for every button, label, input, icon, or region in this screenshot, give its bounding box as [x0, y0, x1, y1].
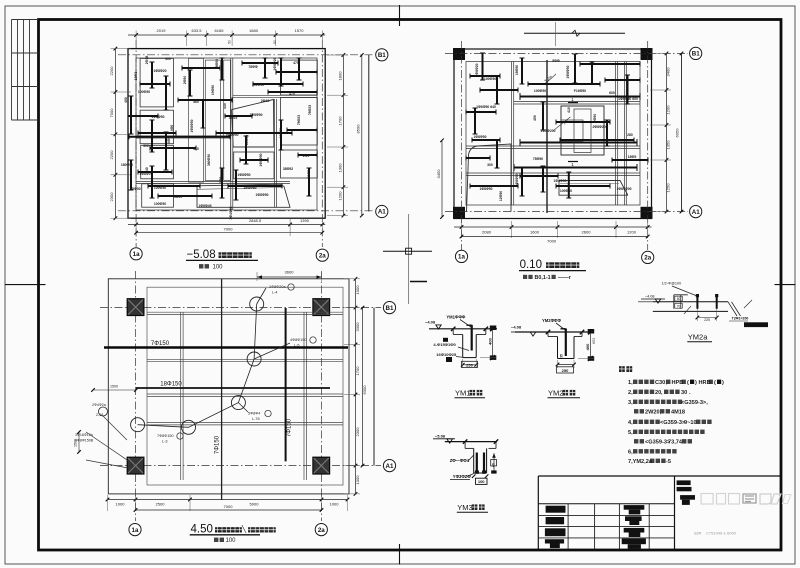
- svg-text:225: 225: [704, 318, 710, 322]
- svg-text:460: 460: [124, 97, 128, 103]
- svg-text:A1: A1: [378, 209, 386, 216]
- svg-text:100Φ50: 100Φ50: [560, 189, 572, 193]
- svg-text:1000: 1000: [116, 502, 126, 507]
- svg-text:2Φ50: 2Φ50: [183, 76, 187, 85]
- svg-text:T2Φ1=200: T2Φ1=200: [732, 317, 749, 321]
- detail YM2 beam web outline: [557, 337, 559, 359]
- svg-text:280: 280: [627, 133, 633, 137]
- svg-text:70: 70: [677, 304, 681, 308]
- plan1 stair void polygon middle: [232, 100, 274, 148]
- title block outline: [538, 475, 780, 477]
- svg-text:2Φ48: 2Φ48: [261, 99, 270, 103]
- svg-text:4.50: 4.50: [191, 524, 213, 536]
- svg-text:3Φ5: 3Φ5: [219, 177, 223, 184]
- plan3 diagonal leaders bottom-left: [86, 432, 130, 462]
- svg-text:3600: 3600: [285, 270, 295, 275]
- detail YM2a bottom dimension 225: [697, 317, 716, 319]
- plan1 inner wall line: [136, 58, 317, 210]
- plan2 axis bubble 2a: [642, 251, 654, 263]
- svg-text:50: 50: [228, 40, 232, 44]
- svg-text:1500: 1500: [74, 439, 78, 447]
- svg-text:2a: 2a: [318, 527, 325, 534]
- plan2 interior beam horizontal pair upper: [514, 101, 640, 103]
- plan1 mid lower room: [234, 152, 274, 179]
- title block redacted cell r3c4: [624, 528, 645, 533]
- plan2 corner column top-left: [453, 48, 465, 60]
- svg-text:1Φ8Φ50: 1Φ8Φ50: [249, 113, 262, 117]
- plan2 subtitle: [523, 275, 533, 279]
- svg-text:445: 445: [193, 147, 199, 151]
- plan2 axis line 2a: [647, 41, 649, 250]
- svg-text:╲: ╲: [241, 525, 247, 534]
- plan1 bottom dimension line: [128, 224, 325, 226]
- svg-text:4Φ20: 4Φ20: [174, 195, 183, 199]
- svg-text:5,: 5,: [628, 430, 633, 436]
- plan1 interior beam horizontal upper right: [233, 94, 317, 96]
- svg-text:YM1: YM1: [455, 389, 470, 398]
- plan1 left dimension line: [114, 49, 116, 219]
- svg-text:1250: 1250: [666, 183, 671, 193]
- plan3 column 1aB1: [127, 299, 144, 316]
- detail YM2a left step bracket: [674, 295, 688, 309]
- plan2 inner wall line: [466, 62, 640, 206]
- svg-text:1000: 1000: [355, 285, 360, 295]
- detail YM2 right dimension: [589, 332, 591, 359]
- svg-text:1500: 1500: [110, 385, 118, 389]
- sheet center cross: [408, 214, 410, 304]
- plan3 1500 dim vertical: [78, 432, 80, 452]
- svg-text:(: (: [687, 380, 689, 386]
- plan1 outer wall outline: [128, 49, 325, 219]
- plan1 stair flight strip 1: [189, 58, 204, 182]
- plan3 small circle left: [99, 407, 108, 416]
- svg-text:100Φ50: 100Φ50: [534, 89, 546, 93]
- detail YM1 left annotation blob: [443, 338, 448, 342]
- plan3 axis bubble 1a: [129, 524, 141, 536]
- detail YM2a mid slash marks: [684, 306, 691, 314]
- svg-text:1Φ8Φ50: 1Φ8Φ50: [259, 153, 263, 166]
- plan1 stair flight strip 2: [205, 60, 220, 180]
- svg-text:2Φ4Φ2a: 2Φ4Φ2a: [92, 403, 106, 407]
- plan3 slab panel lines: [147, 311, 343, 313]
- plan2 corner column top-right: [641, 48, 653, 60]
- title block redacted cell r2c1: [546, 517, 565, 524]
- svg-text:YM2: YM2: [548, 389, 563, 398]
- svg-text:1Φ8Φ20: 1Φ8Φ20: [273, 57, 277, 70]
- svg-text:4-Φ15Φ1Φ0: 4-Φ15Φ1Φ0: [433, 342, 456, 347]
- svg-text:4Φ2: 4Φ2: [592, 338, 596, 345]
- plan3 axis line 2a: [321, 271, 323, 521]
- svg-text:1a: 1a: [458, 254, 465, 261]
- svg-text:1800: 1800: [338, 71, 343, 81]
- plan2 long top beam bar: [520, 96, 640, 98]
- svg-text:7000: 7000: [109, 108, 114, 118]
- plan1 room left col 1: [140, 58, 173, 107]
- svg-text:7,YM2,2a: 7,YM2,2a: [628, 459, 653, 465]
- svg-text:1Φ8Φ50: 1Φ8Φ50: [255, 193, 268, 197]
- svg-text:8590: 8590: [356, 124, 361, 134]
- plan1 room right col 1: [281, 60, 318, 95]
- plan1 bottom slab band polygon: [197, 184, 290, 207]
- title block redacted cell r2c4: [625, 516, 642, 521]
- svg-text:1Φ8Φ50: 1Φ8Φ50: [225, 133, 238, 137]
- title block logo bar 1: [677, 480, 691, 485]
- svg-text:3450: 3450: [436, 169, 441, 179]
- svg-text:3,: 3,: [628, 400, 633, 406]
- svg-text:78Φ23: 78Φ23: [297, 115, 301, 125]
- svg-text:1Φ8Φ20: 1Φ8Φ20: [153, 69, 166, 73]
- plan3 center section line vertical: [221, 279, 223, 500]
- svg-text:1Φ8Φ50: 1Φ8Φ50: [473, 135, 486, 139]
- plan2 elevator shaft rectangle: [561, 106, 604, 155]
- svg-text:78Φ23: 78Φ23: [308, 105, 312, 115]
- svg-text:−5.08: −5.08: [435, 433, 446, 438]
- plan3 axis bubble 2a: [315, 524, 327, 536]
- plan1 stair flight strip 3: [224, 60, 231, 180]
- plan3 callout circle 3: [231, 396, 245, 410]
- svg-text:1570: 1570: [295, 28, 305, 33]
- svg-text:−5.08: −5.08: [187, 249, 216, 261]
- svg-text:4Φ8Φ150B: 4Φ8Φ150B: [75, 439, 94, 443]
- svg-text:40: 40: [491, 463, 495, 467]
- svg-text:B0,1-1: B0,1-1: [535, 275, 551, 281]
- svg-text:2a: 2a: [644, 255, 651, 262]
- svg-text:445: 445: [223, 103, 227, 109]
- plan3 right overall dimension: [362, 308, 364, 466]
- detail YM3 right dimension with arrow: [493, 453, 495, 472]
- axis line 1a vertical: [135, 40, 137, 247]
- svg-text:YM1ΦΦΦ: YM1ΦΦΦ: [446, 314, 465, 319]
- svg-text:380Φ50: 380Φ50: [207, 154, 211, 166]
- svg-text:7Φ150: 7Φ150: [151, 341, 170, 347]
- plan2 left ramp polygon: [467, 144, 512, 212]
- svg-text:50: 50: [677, 297, 681, 301]
- svg-text:78ΦΦ: 78ΦΦ: [248, 65, 258, 69]
- svg-text:2Φ8Φ200: 2Φ8Φ200: [593, 125, 608, 129]
- svg-text:A1: A1: [386, 463, 394, 470]
- plan3 mid rebar line 18@150: [136, 387, 330, 389]
- svg-text:410: 410: [567, 107, 571, 113]
- svg-text:400: 400: [585, 343, 590, 350]
- centering mark bottom: [399, 544, 401, 565]
- plan1 interior beam vertical pair right of void: [274, 99, 276, 207]
- plan1 room right col 2: [281, 98, 318, 146]
- detail YM1 top slab line: [429, 328, 497, 330]
- svg-text:1Φ8Φ50: 1Φ8Φ50: [515, 173, 519, 186]
- svg-text:1Φ8Φ50: 1Φ8Φ50: [151, 115, 164, 119]
- svg-text:2-18: 2-18: [96, 413, 103, 417]
- svg-text:1,: 1,: [628, 380, 633, 386]
- svg-text:16Φ10Φ25: 16Φ10Φ25: [436, 352, 457, 357]
- plan3 bottom dimension line: [108, 499, 348, 501]
- plan3 callout leader polyline: [138, 304, 257, 427]
- plan3 axis line A1: [100, 465, 381, 467]
- svg-text:7Φ150: 7Φ150: [215, 435, 221, 454]
- plan2 shaft diagonal mark: [554, 117, 571, 130]
- svg-text:1000: 1000: [330, 502, 340, 507]
- centering mark left: [5, 284, 46, 286]
- title block header bottom line: [538, 503, 674, 505]
- axis bubble B1: [376, 49, 388, 61]
- svg-text:7ΦΦ50: 7ΦΦ50: [129, 187, 140, 191]
- plan3 top dimension 3600: [257, 276, 322, 278]
- svg-text:1a: 1a: [132, 527, 139, 534]
- plan3 inner slab line: [147, 287, 343, 485]
- detail YM2 rebar bar: [565, 329, 567, 357]
- svg-text:5000: 5000: [250, 502, 260, 507]
- axis bubble 2a: [316, 249, 328, 261]
- title block redacted cell r4c1: [545, 539, 564, 543]
- svg-text:1000: 1000: [355, 475, 360, 485]
- svg-text:2Φ5: 2Φ5: [303, 154, 310, 158]
- svg-text:<G359-3>,: <G359-3>,: [681, 400, 708, 406]
- signature strip grid top-left: [11, 20, 13, 121]
- plan2 interior beam vertical pair left: [511, 62, 513, 206]
- svg-text:30Φ5: 30Φ5: [307, 170, 311, 179]
- svg-text:300: 300: [487, 163, 493, 167]
- svg-text:L-4: L-4: [272, 291, 278, 295]
- svg-text:7000: 7000: [224, 227, 234, 232]
- svg-text:7Φ8Φ150: 7Φ8Φ150: [157, 434, 174, 438]
- plan2 axis bubble B1: [690, 47, 702, 59]
- centering mark top: [399, 5, 401, 26]
- svg-text:1200: 1200: [666, 105, 671, 115]
- detail YM2a dowel bar 2: [716, 296, 718, 309]
- svg-text:L-5: L-5: [294, 344, 300, 348]
- svg-text:YM2ΦΦΦ: YM2ΦΦΦ: [542, 318, 561, 323]
- svg-text:2019: 2019: [157, 28, 167, 33]
- plan1 room left col 2: [140, 110, 173, 144]
- svg-text:2,: 2,: [628, 390, 633, 396]
- svg-text:1Φ8Φ0: 1Φ8Φ0: [139, 172, 150, 176]
- svg-text:2200: 2200: [109, 150, 114, 160]
- svg-text:2080: 2080: [482, 230, 492, 235]
- detail YM2 bottom dimension 250: [558, 364, 575, 366]
- plan2 interior beam horizontal pair middle full: [466, 145, 640, 147]
- svg-text:C751049-1-6000: C751049-1-6000: [706, 531, 737, 536]
- svg-text:18Φ50: 18Φ50: [279, 128, 283, 138]
- svg-text:6050: 6050: [675, 128, 680, 138]
- svg-text:1390: 1390: [300, 218, 310, 223]
- plan2 bottom dimension line: [454, 226, 652, 228]
- plan2 axis line A1: [445, 211, 688, 213]
- svg-text:1200: 1200: [338, 191, 343, 201]
- plan3 column 1aA1: [127, 457, 144, 474]
- plan1 room left col 4: [142, 184, 174, 207]
- svg-text:78Φ50: 78Φ50: [533, 157, 543, 161]
- centering mark right: [775, 284, 796, 286]
- axis line A1 horizontal: [118, 210, 375, 212]
- svg-text:2200: 2200: [109, 66, 114, 76]
- svg-text:6165: 6165: [215, 28, 225, 33]
- svg-text:2a: 2a: [319, 252, 326, 259]
- svg-text:4Φ8: 4Φ8: [167, 137, 171, 144]
- svg-text:L-76: L-76: [252, 417, 260, 421]
- plan2 interior beam vertical pair far right: [624, 62, 626, 206]
- svg-text:3400: 3400: [666, 67, 671, 77]
- plan2 left dimension: [441, 140, 443, 217]
- svg-text:B1: B1: [386, 305, 394, 312]
- plan2 interior beam horizontal pair lower full: [466, 172, 640, 174]
- plan1 interior beam horizontal lower: [136, 181, 290, 183]
- svg-text:<G359-3>: <G359-3>: [660, 420, 686, 426]
- svg-text:73,74: 73,74: [668, 440, 683, 446]
- title block redacted cell r3c1: [545, 528, 566, 536]
- detail YM1 beam web outline: [462, 335, 464, 358]
- detail YM3 slab soffit brackets: [464, 442, 466, 449]
- plan3 axis line 1a: [135, 271, 137, 521]
- svg-text:2Φ50: 2Φ50: [593, 114, 597, 123]
- plan2 outer wall outline: [454, 49, 652, 219]
- svg-text:1Φ8Φ45: 1Φ8Φ45: [198, 204, 211, 208]
- svg-text:YM2a: YM2a: [688, 333, 708, 342]
- svg-text:−4.08: −4.08: [425, 320, 436, 325]
- svg-text:100: 100: [478, 479, 485, 484]
- plan3 right dimension line: [355, 279, 357, 494]
- svg-text:4Φ0: 4Φ0: [170, 125, 174, 132]
- detail YM3 web outline: [473, 448, 475, 473]
- plan3 top rebar distribution line 7@150: [104, 346, 348, 349]
- svg-text:4,: 4,: [628, 420, 633, 426]
- svg-text:18Φ3: 18Φ3: [134, 72, 138, 81]
- svg-text:7Φ150: 7Φ150: [287, 418, 293, 437]
- plan3 callout circle 1: [250, 297, 264, 311]
- detail YM3 top line: [445, 441, 497, 443]
- plan3 bottom overall dimension: [136, 509, 322, 511]
- svg-text:560: 560: [193, 100, 199, 104]
- svg-text:400: 400: [487, 337, 492, 344]
- title block redacted cell r1c4: [624, 505, 645, 510]
- svg-text:3Φ4Φ50: 3Φ4Φ50: [229, 206, 233, 219]
- svg-text:30: 30: [681, 390, 687, 396]
- svg-text:0.10: 0.10: [520, 259, 542, 271]
- svg-text:5ΦΦ: 5ΦΦ: [552, 59, 560, 63]
- plan3 outer outline: [108, 279, 349, 494]
- svg-text:2W20,: 2W20,: [645, 410, 662, 416]
- svg-text:A1: A1: [692, 209, 700, 216]
- svg-text:1350: 1350: [666, 140, 671, 150]
- title block row lines: [538, 514, 674, 516]
- title block redacted cell r4c4: [622, 539, 646, 545]
- svg-text:4M18: 4M18: [671, 410, 685, 416]
- title block redacted cell r1c1: [546, 506, 566, 513]
- svg-text:1700: 1700: [355, 366, 360, 376]
- svg-text:19Φ50: 19Φ50: [211, 85, 215, 95]
- plan2 bottom-right slab band: [559, 181, 628, 196]
- detail YM1 rebar bar: [471, 325, 473, 351]
- detail YM1 right dimension 400: [492, 329, 494, 358]
- svg-text:100Φ50: 100Φ50: [154, 186, 166, 190]
- svg-text:100Φ50: 100Φ50: [154, 202, 166, 206]
- svg-text:7000: 7000: [547, 239, 557, 244]
- svg-text:1200: 1200: [627, 230, 637, 235]
- svg-text:1Φ8Φ50: 1Φ8Φ50: [479, 187, 492, 191]
- plan2 mid beam bar: [520, 142, 637, 144]
- plan3 callout circle 5: [131, 418, 145, 432]
- svg-text:2848.5: 2848.5: [249, 218, 262, 223]
- svg-text:YΦ3ΦZΦ: YΦ3ΦZΦ: [453, 474, 472, 479]
- svg-text:−4.08: −4.08: [511, 324, 522, 329]
- plan2 right inner dimension line: [666, 53, 668, 211]
- plan2 axis bubble 1a: [455, 250, 467, 262]
- svg-text:4Φ25: 4Φ25: [229, 116, 238, 120]
- plan1 rebar marks: [151, 62, 153, 88]
- plan3 callout circle 2: [247, 352, 261, 366]
- svg-text:475: 475: [293, 61, 299, 65]
- axis bubble 1a: [130, 248, 142, 260]
- plan3 axis bubble connector line: [373, 308, 375, 466]
- svg-text:100Φ50: 100Φ50: [138, 90, 150, 94]
- plan3 vertical rebar line right 7@150: [285, 308, 287, 461]
- detail YM2a right break: [728, 302, 737, 316]
- plan3 axis bubble A1: [383, 460, 395, 472]
- plan2 bottom overall dimension: [462, 236, 648, 238]
- plan3 axis line B1: [100, 307, 381, 309]
- plan1 axis bubble connector line: [368, 55, 370, 212]
- svg-text:1680: 1680: [249, 28, 259, 33]
- plan2 interior beam vertical pair right: [615, 62, 617, 206]
- svg-text:300: 300: [165, 57, 171, 61]
- svg-text:18Φ50: 18Φ50: [515, 65, 519, 75]
- svg-text:2600: 2600: [582, 230, 592, 235]
- plan3 callout circle 4: [182, 420, 196, 434]
- plan1 room right col 3: [281, 150, 318, 178]
- svg-text:1Φ8Φ50: 1Φ8Φ50: [243, 186, 256, 190]
- svg-text:475: 475: [289, 92, 295, 96]
- svg-text:6,: 6,: [628, 450, 633, 456]
- detail YM2 slab soffit brackets: [547, 332, 549, 337]
- detail YM3 inner bars: [476, 453, 478, 472]
- plan1 top dimension line: [128, 34, 325, 36]
- svg-text:1600: 1600: [530, 230, 540, 235]
- svg-text:——r: ——r: [558, 275, 572, 281]
- svg-text:50: 50: [273, 40, 277, 44]
- plan2 lower beam bar: [514, 167, 637, 169]
- axis line 2a vertical: [321, 40, 323, 247]
- detail YM2a dowel bar 1: [696, 296, 698, 309]
- svg-text:C30;: C30;: [655, 380, 667, 386]
- svg-text:L-3: L-3: [162, 440, 168, 444]
- svg-text:9~10: 9~10: [684, 420, 697, 426]
- svg-text:-5: -5: [666, 459, 671, 465]
- detail YM2a slab lines: [653, 301, 728, 303]
- svg-text:300: 300: [143, 144, 149, 148]
- title block vertical divider: [674, 476, 676, 550]
- svg-text:250: 250: [466, 362, 473, 367]
- svg-text:1Φ8Φ20: 1Φ8Φ20: [475, 63, 479, 76]
- svg-text:250: 250: [562, 368, 569, 373]
- svg-text:YM3: YM3: [457, 503, 472, 512]
- svg-text:1700: 1700: [338, 116, 343, 126]
- svg-text:38Φ52: 38Φ52: [283, 167, 293, 171]
- svg-text:633.5: 633.5: [191, 28, 202, 33]
- plan3 axis bubble B1: [383, 302, 395, 314]
- note line 5b: [634, 439, 644, 443]
- plan1 bottom overall dimension: [136, 232, 322, 234]
- svg-text:F16Φ50: F16Φ50: [574, 89, 587, 93]
- watermark light boxes: [701, 494, 713, 505]
- detail YM3 bottom dimension: [476, 478, 488, 484]
- svg-text:180Φ50: 180Φ50: [121, 163, 133, 167]
- svg-text:1Φ8Φ20a: 1Φ8Φ20a: [269, 285, 287, 289]
- svg-text:): ): [722, 380, 724, 386]
- svg-text:1Φ8Φ50: 1Φ8Φ50: [237, 173, 250, 177]
- plan2 left stray tick: [410, 281, 427, 283]
- plan3 column 2aA1: [313, 457, 330, 474]
- svg-text:1Φ8Φ50: 1Φ8Φ50: [566, 65, 570, 78]
- title block column lines: [567, 504, 569, 550]
- axis bubble A1: [376, 205, 388, 217]
